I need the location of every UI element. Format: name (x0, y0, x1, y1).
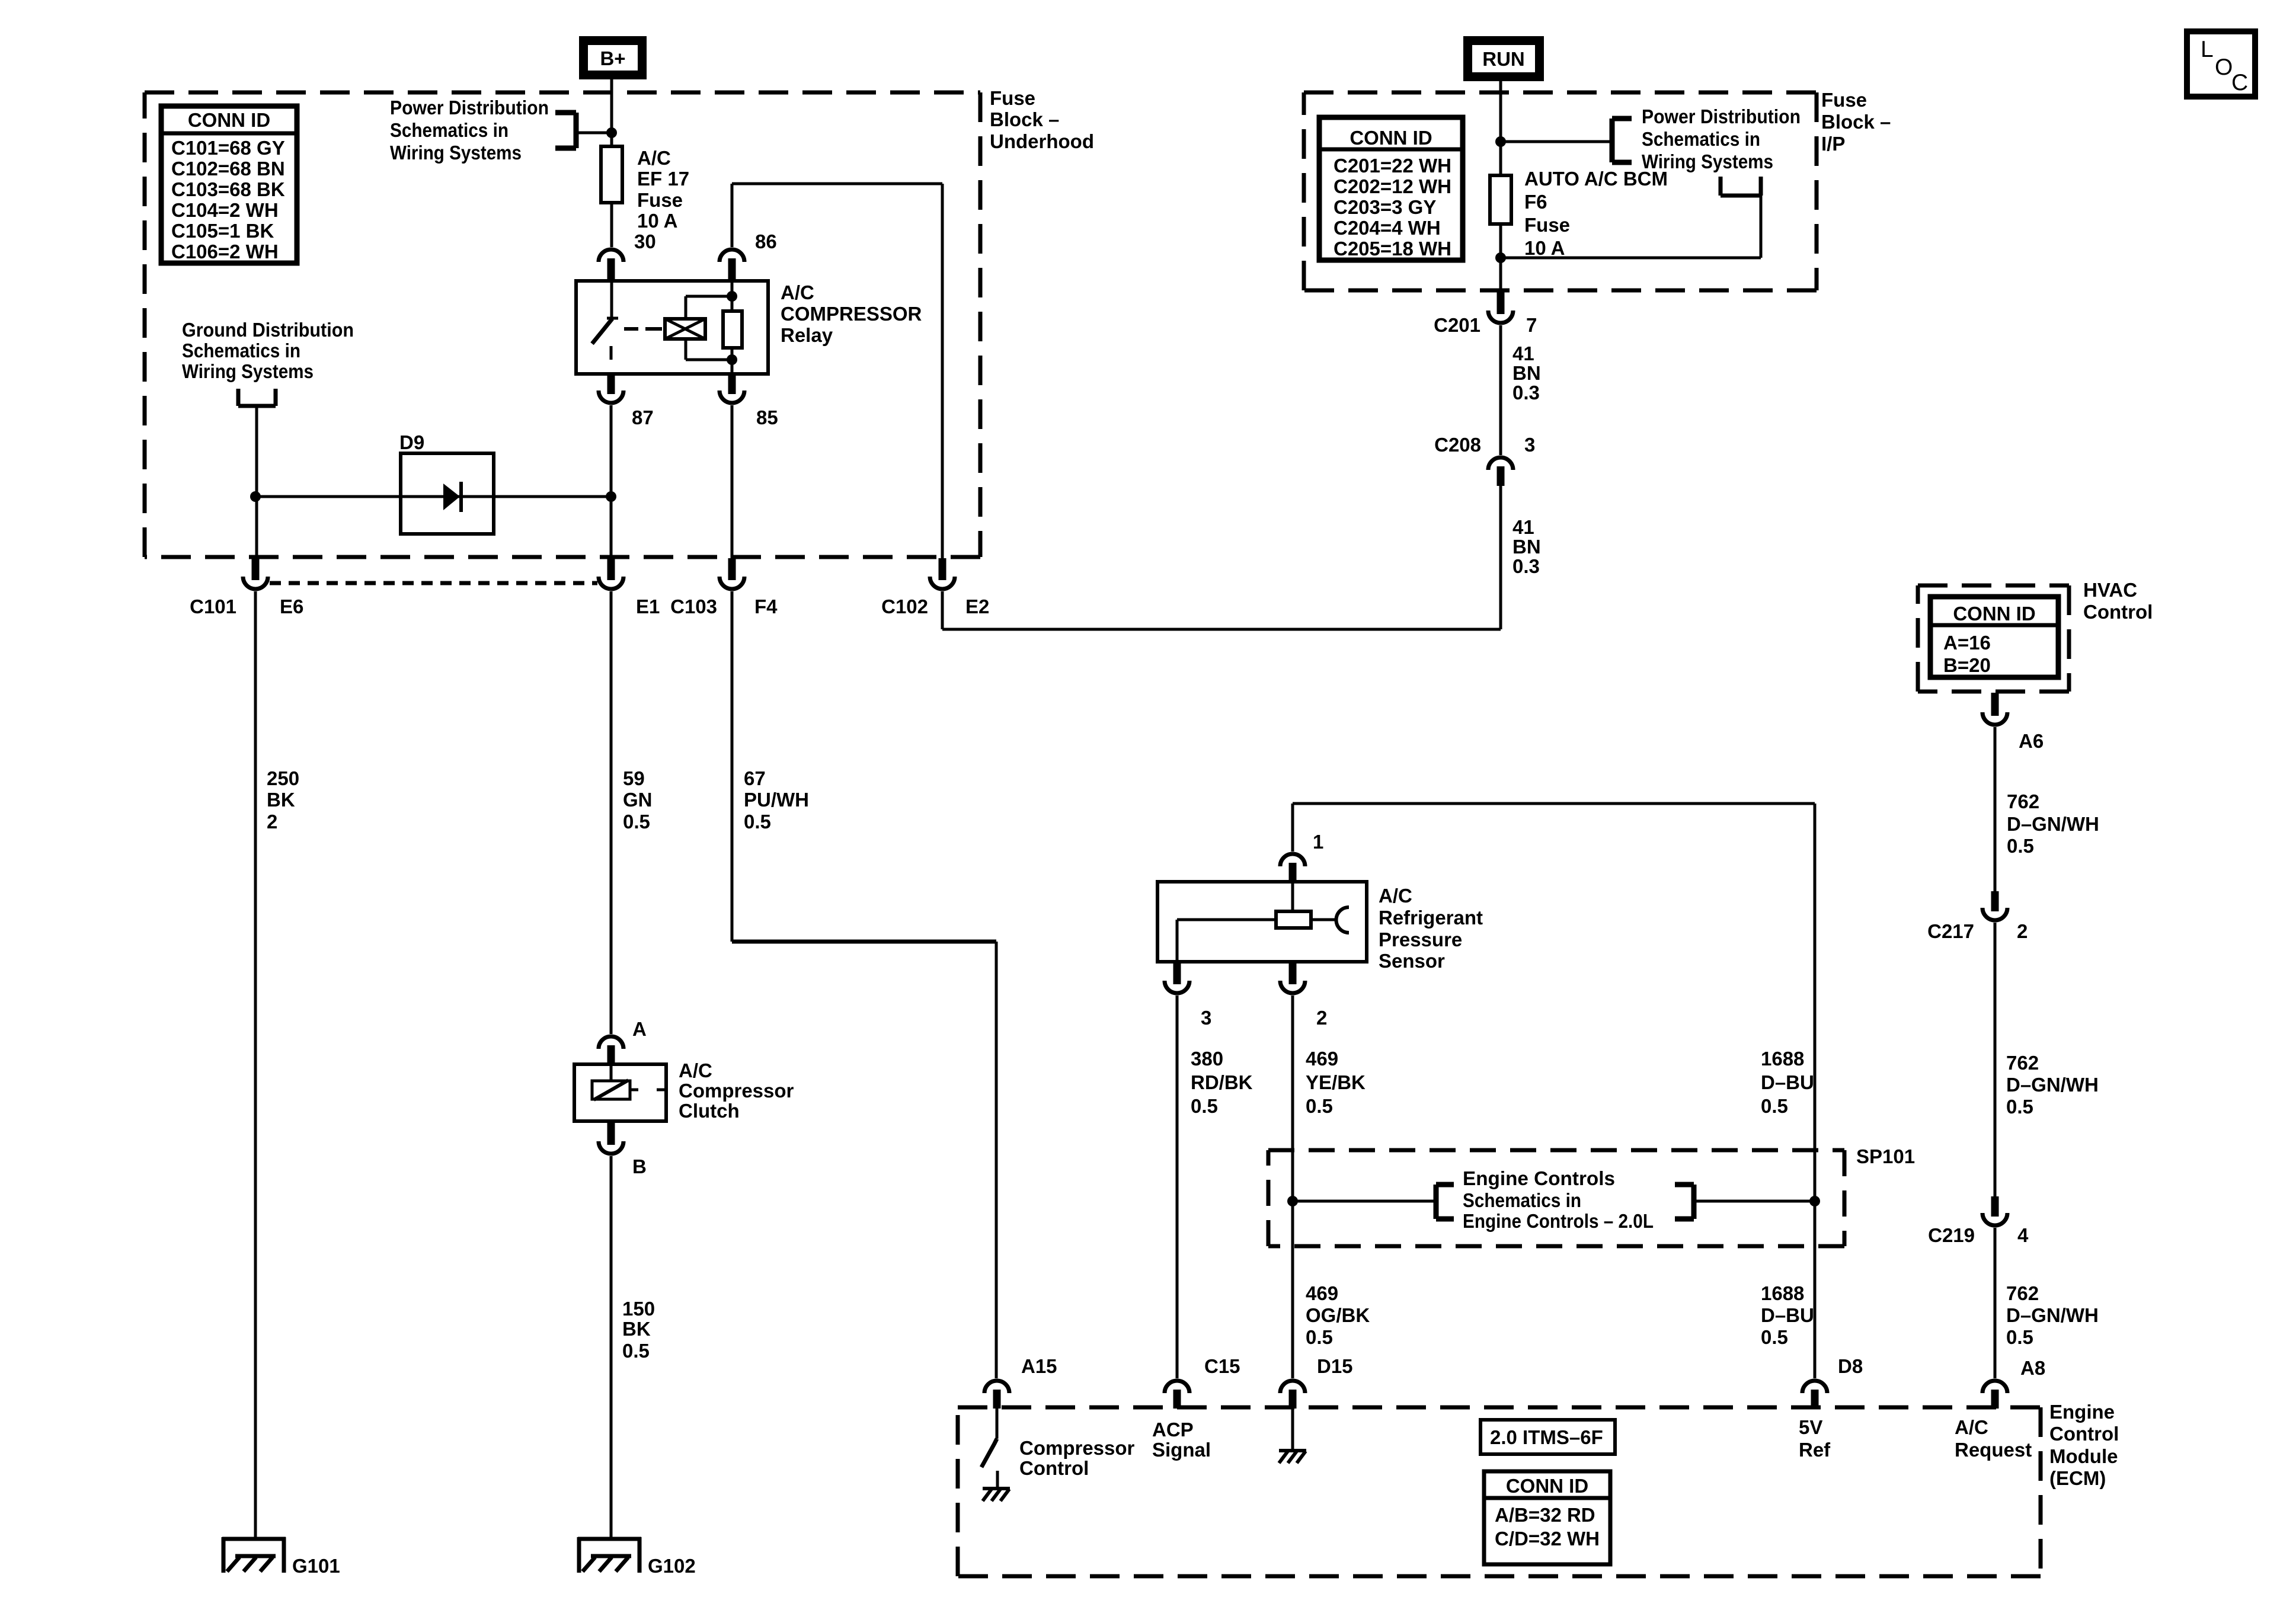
svg-text:CONN ID: CONN ID (1350, 127, 1432, 149)
svg-text:E2: E2 (965, 596, 989, 617)
svg-text:762: 762 (2006, 1282, 2039, 1304)
svg-text:2: 2 (1316, 1007, 1327, 1029)
svg-text:Control: Control (2049, 1423, 2119, 1445)
svg-text:0.5: 0.5 (1191, 1095, 1218, 1117)
svg-text:HVAC: HVAC (2083, 579, 2137, 601)
svg-text:GN: GN (623, 789, 653, 811)
svg-text:RUN: RUN (1482, 48, 1525, 70)
svg-text:C104=2 WH: C104=2 WH (171, 199, 279, 221)
svg-text:Module: Module (2049, 1445, 2118, 1467)
svg-text:A8: A8 (2020, 1357, 2045, 1379)
svg-text:Schematics in: Schematics in (182, 340, 300, 361)
svg-text:C101: C101 (190, 596, 236, 617)
svg-text:3: 3 (1524, 434, 1535, 456)
svg-text:Block –: Block – (990, 108, 1059, 130)
svg-text:Power Distribution: Power Distribution (390, 97, 549, 119)
svg-text:YE/BK: YE/BK (1306, 1071, 1366, 1093)
svg-text:Underhood: Underhood (990, 130, 1094, 152)
svg-text:469: 469 (1306, 1282, 1338, 1304)
svg-text:0.5: 0.5 (2007, 835, 2034, 857)
svg-text:86: 86 (755, 231, 777, 252)
svg-text:L: L (2201, 37, 2214, 62)
svg-text:A/C: A/C (1379, 885, 1412, 907)
svg-text:CONN ID: CONN ID (1953, 603, 2035, 625)
svg-text:ACP: ACP (1152, 1419, 1194, 1441)
svg-text:A/C: A/C (781, 281, 814, 303)
svg-text:1: 1 (1313, 831, 1323, 853)
svg-text:D–BU: D–BU (1761, 1071, 1814, 1093)
svg-text:Clutch: Clutch (679, 1100, 740, 1122)
svg-text:A6: A6 (2019, 730, 2044, 752)
svg-text:2: 2 (2017, 920, 2028, 942)
svg-text:B+: B+ (600, 47, 625, 69)
svg-text:C103=68 BK: C103=68 BK (171, 178, 285, 200)
svg-text:762: 762 (2006, 1052, 2039, 1074)
svg-text:5V: 5V (1799, 1416, 1822, 1438)
svg-text:Pressure: Pressure (1379, 929, 1462, 950)
svg-text:Engine: Engine (2049, 1401, 2115, 1423)
svg-text:0.5: 0.5 (1761, 1326, 1788, 1348)
svg-text:CONN ID: CONN ID (1506, 1475, 1588, 1497)
svg-text:C: C (2231, 70, 2248, 95)
svg-text:0.5: 0.5 (623, 811, 650, 833)
svg-text:D15: D15 (1317, 1355, 1353, 1377)
svg-text:Block –: Block – (1821, 111, 1891, 133)
svg-text:D–GN/WH: D–GN/WH (2006, 1074, 2099, 1096)
svg-text:OG/BK: OG/BK (1306, 1304, 1370, 1326)
svg-text:COMPRESSOR: COMPRESSOR (781, 303, 922, 325)
svg-text:RD/BK: RD/BK (1191, 1071, 1253, 1093)
svg-text:7: 7 (1526, 314, 1537, 336)
svg-text:0.5: 0.5 (2006, 1096, 2033, 1118)
svg-text:Signal: Signal (1152, 1439, 1211, 1461)
svg-text:C101=68 GY: C101=68 GY (171, 137, 285, 159)
svg-text:Request: Request (1955, 1439, 2032, 1461)
svg-text:A15: A15 (1021, 1355, 1057, 1377)
svg-text:G102: G102 (648, 1555, 696, 1577)
svg-text:150: 150 (622, 1298, 655, 1320)
svg-text:B: B (632, 1156, 647, 1177)
svg-text:59: 59 (623, 767, 645, 789)
svg-text:D8: D8 (1838, 1355, 1863, 1377)
svg-text:A/B=32 RD: A/B=32 RD (1495, 1504, 1595, 1526)
svg-text:O: O (2215, 55, 2233, 80)
svg-text:Sensor: Sensor (1379, 950, 1445, 972)
svg-text:3: 3 (1201, 1007, 1211, 1029)
svg-text:Relay: Relay (781, 324, 833, 346)
svg-text:87: 87 (632, 406, 654, 428)
svg-text:C219: C219 (1928, 1224, 1975, 1246)
svg-text:Engine Controls – 2.0L: Engine Controls – 2.0L (1463, 1210, 1654, 1232)
svg-text:Fuse: Fuse (1821, 89, 1867, 111)
svg-text:(ECM): (ECM) (2049, 1467, 2106, 1489)
svg-text:C102: C102 (881, 596, 928, 617)
svg-text:Power Distribution: Power Distribution (1642, 105, 1801, 127)
svg-text:Fuse: Fuse (990, 87, 1035, 109)
svg-text:C203=3 GY: C203=3 GY (1334, 196, 1436, 218)
svg-text:SP101: SP101 (1856, 1145, 1915, 1167)
svg-text:PU/WH: PU/WH (744, 789, 809, 811)
svg-text:762: 762 (2007, 790, 2039, 812)
svg-text:Refrigerant: Refrigerant (1379, 907, 1483, 929)
svg-text:C106=2 WH: C106=2 WH (171, 241, 279, 263)
svg-text:A=16: A=16 (1943, 632, 1991, 654)
svg-text:0.5: 0.5 (1306, 1326, 1333, 1348)
svg-text:Schematics in: Schematics in (1463, 1189, 1581, 1211)
svg-text:Wiring Systems: Wiring Systems (182, 360, 314, 382)
svg-text:E6: E6 (280, 596, 303, 617)
svg-text:BK: BK (622, 1318, 651, 1340)
svg-text:Control: Control (2083, 601, 2153, 623)
svg-text:BK: BK (267, 789, 295, 811)
svg-text:A/C: A/C (1955, 1416, 1988, 1438)
svg-text:Compressor: Compressor (679, 1080, 794, 1102)
svg-text:380: 380 (1191, 1048, 1223, 1070)
svg-text:C201=22 WH: C201=22 WH (1334, 155, 1451, 177)
svg-text:A/C: A/C (637, 147, 671, 169)
svg-text:0.3: 0.3 (1512, 382, 1540, 404)
svg-text:F4: F4 (754, 596, 778, 617)
svg-text:C102=68 BN: C102=68 BN (171, 158, 285, 180)
svg-text:2: 2 (267, 811, 277, 833)
svg-text:41: 41 (1512, 343, 1534, 364)
svg-text:F6: F6 (1524, 191, 1547, 213)
svg-text:D–GN/WH: D–GN/WH (2007, 813, 2099, 835)
svg-text:C205=18 WH: C205=18 WH (1334, 238, 1451, 260)
svg-text:0.3: 0.3 (1512, 555, 1540, 577)
svg-text:41: 41 (1512, 516, 1534, 538)
svg-text:250: 250 (267, 767, 299, 789)
svg-text:A/C: A/C (679, 1060, 712, 1081)
svg-text:Wiring Systems: Wiring Systems (390, 142, 522, 164)
svg-text:0.5: 0.5 (2006, 1326, 2033, 1348)
svg-text:1688: 1688 (1761, 1048, 1804, 1070)
svg-text:C217: C217 (1927, 920, 1974, 942)
svg-text:D9: D9 (399, 431, 424, 453)
svg-text:4: 4 (2017, 1224, 2029, 1246)
svg-text:C202=12 WH: C202=12 WH (1334, 175, 1451, 197)
svg-text:Wiring Systems: Wiring Systems (1642, 151, 1773, 172)
svg-text:B=20: B=20 (1943, 654, 1991, 676)
svg-text:0.5: 0.5 (744, 811, 771, 833)
svg-text:0.5: 0.5 (1761, 1095, 1788, 1117)
svg-text:Control: Control (1019, 1457, 1089, 1479)
svg-text:Compressor: Compressor (1019, 1437, 1135, 1459)
svg-text:C208: C208 (1434, 434, 1481, 456)
svg-text:C15: C15 (1204, 1355, 1240, 1377)
svg-text:Fuse: Fuse (1524, 214, 1570, 236)
svg-text:Fuse: Fuse (637, 189, 683, 211)
svg-text:0.5: 0.5 (622, 1340, 650, 1362)
svg-text:67: 67 (744, 767, 766, 789)
svg-text:10 A: 10 A (637, 210, 677, 232)
svg-text:C/D=32 WH: C/D=32 WH (1495, 1528, 1600, 1550)
svg-text:Ref: Ref (1799, 1439, 1831, 1461)
svg-text:D–GN/WH: D–GN/WH (2006, 1304, 2099, 1326)
svg-text:I/P: I/P (1821, 133, 1845, 155)
svg-text:EF 17: EF 17 (637, 168, 689, 190)
svg-text:CONN ID: CONN ID (188, 109, 270, 131)
svg-text:469: 469 (1306, 1048, 1338, 1070)
svg-text:C201: C201 (1434, 314, 1480, 336)
svg-text:C105=1 BK: C105=1 BK (171, 220, 274, 242)
svg-text:C103: C103 (670, 596, 717, 617)
svg-text:85: 85 (756, 406, 778, 428)
svg-text:30: 30 (634, 231, 656, 252)
svg-text:Engine Controls: Engine Controls (1463, 1167, 1615, 1189)
svg-text:0.5: 0.5 (1306, 1095, 1333, 1117)
svg-text:10 A: 10 A (1524, 237, 1565, 259)
svg-text:BN: BN (1512, 536, 1541, 558)
svg-text:D–BU: D–BU (1761, 1304, 1814, 1326)
svg-text:2.0 ITMS–6F: 2.0 ITMS–6F (1490, 1426, 1603, 1448)
svg-text:A: A (632, 1018, 647, 1040)
svg-text:Schematics in: Schematics in (1642, 128, 1760, 150)
svg-text:1688: 1688 (1761, 1282, 1804, 1304)
svg-text:BN: BN (1512, 362, 1541, 384)
svg-text:C204=4 WH: C204=4 WH (1334, 217, 1441, 239)
svg-text:Ground Distribution: Ground Distribution (182, 319, 354, 341)
svg-text:G101: G101 (292, 1555, 340, 1577)
svg-text:E1: E1 (636, 596, 660, 617)
svg-text:Schematics in: Schematics in (390, 119, 509, 141)
